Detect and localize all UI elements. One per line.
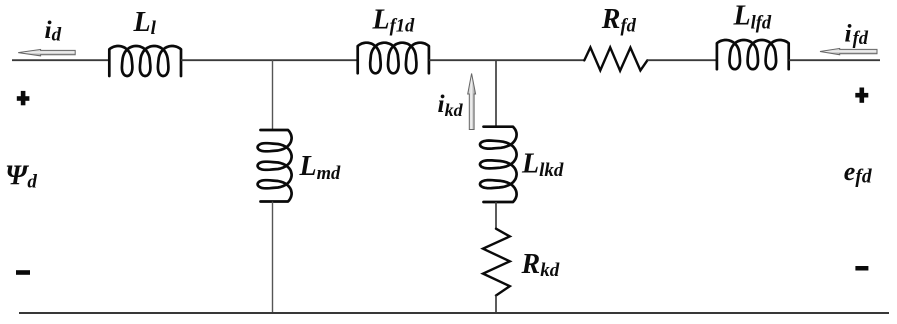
polarity plus at Psi_d terminal [17,91,30,105]
polarity minus at e_fd terminal [855,266,868,271]
svg-text:Llkd: Llkd [521,149,564,182]
wire: damper branch, L_lkd to R_kd [495,202,497,229]
current arrow i_kd [468,74,476,130]
wire: top rail, left end to L_l [12,59,109,61]
inductor L_lfd [717,40,789,69]
svg-text:Ll: Ll [133,7,157,39]
wire: top rail, L_md junction to L_f1d [273,59,358,61]
wire: top rail, R_fd to L_lfd [647,59,717,61]
wire: top rail, L_lfd to right end [789,59,880,61]
svg-text:ifd: ifd [845,18,869,49]
svg-text:Rkd: Rkd [521,249,560,281]
inductor L_lkd [480,127,517,202]
wire: L_md branch, coil to bottom rail [272,202,274,314]
polarity minus at Psi_d terminal [16,270,30,275]
wire: damper branch, R_kd to bottom rail [495,296,497,314]
svg-text:ikd: ikd [438,89,464,120]
wire: top rail, L_l to L_md junction [181,59,273,61]
svg-text:id: id [45,15,62,46]
svg-text:Llfd: Llfd [733,1,772,34]
svg-text:Ψd: Ψd [5,161,37,193]
current arrow i_d [18,49,75,56]
wire: L_md branch, top junction to coil [272,60,274,130]
inductor L_f1d [358,43,429,74]
wire: bottom rail [19,312,889,314]
current arrow i_fd [820,48,877,54]
resistor R_fd [584,47,647,70]
svg-text:efd: efd [844,157,872,188]
wire: top rail, L_f1d to L_lkd junction [429,59,496,61]
svg-text:Lf1d: Lf1d [372,4,416,36]
wire: damper branch, top junction to L_lkd [495,60,497,127]
svg-text:Lmd: Lmd [299,151,341,184]
svg-text:Rfd: Rfd [601,4,637,37]
inductor L_md [258,130,292,202]
resistor R_kd [483,229,510,296]
polarity plus at e_fd terminal [855,88,868,103]
wire: top rail, L_lkd junction to R_fd [496,59,584,61]
inductor L_l [109,46,181,76]
